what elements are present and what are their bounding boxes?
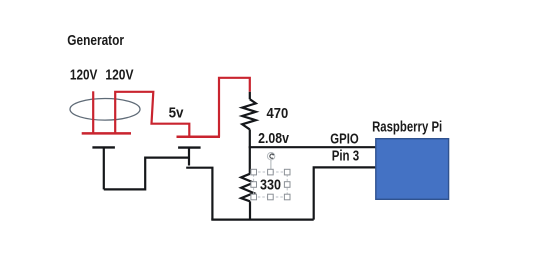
svg-text:470: 470: [267, 106, 289, 122]
svg-text:GPIO: GPIO: [330, 131, 358, 147]
svg-text:Generator: Generator: [67, 33, 124, 49]
svg-text:2.08v: 2.08v: [258, 131, 289, 147]
svg-text:5v: 5v: [169, 106, 184, 122]
svg-text:330: 330: [260, 178, 281, 194]
svg-text:120V: 120V: [70, 67, 98, 83]
svg-text:120V: 120V: [105, 67, 133, 83]
svg-text:Raspberry Pi: Raspberry Pi: [372, 120, 442, 136]
svg-text:Pin 3: Pin 3: [332, 149, 360, 165]
